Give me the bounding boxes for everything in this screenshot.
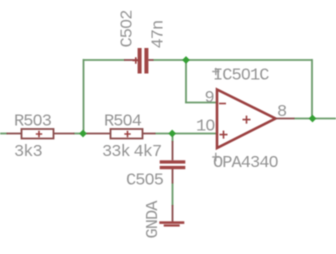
svg-text:C502: C502 (119, 10, 138, 47)
label IC501C (name) (213, 67, 269, 86)
wire: inverting input horizontal to pin 9 (185, 102, 216, 104)
wire: bottom input net horizontal (0, 133, 217, 135)
node: junction feedback top (182, 56, 190, 64)
wire: C505 net vertical to ground (172, 134, 174, 206)
node: junction R503/R504/C502 (79, 130, 87, 138)
svg-text:IC501C: IC501C (213, 67, 269, 86)
label C505 (name) (126, 172, 164, 191)
pin number 8 (277, 103, 287, 122)
svg-text:R503: R503 (14, 113, 52, 132)
origin cross of OPA4340 value (212, 153, 219, 161)
node: junction R504/C505/pin10 (168, 130, 176, 138)
svg-text:8: 8 (277, 103, 287, 122)
wire: right vertical feedback down to output (311, 59, 313, 119)
svg-text:GNDA: GNDA (144, 200, 163, 239)
svg-text:OPA4340: OPA4340 (213, 154, 279, 173)
svg-text:10: 10 (196, 118, 215, 137)
wire: left vertical from top net down to R503/R504 node (83, 59, 85, 134)
pin number 10 (196, 118, 215, 137)
capacitor C502 (124, 48, 154, 74)
label 3k3 (value of R503) (14, 143, 43, 162)
wire: top feedback net horizontal (84, 59, 313, 61)
svg-text:R504: R504 (104, 113, 142, 132)
wire: inverting input drop from feedback node (185, 60, 187, 103)
origin cross of IC501C name (212, 68, 219, 75)
svg-text:9: 9 (205, 89, 215, 108)
label GNDA (vertical) (144, 200, 163, 239)
resistor R504 (87, 129, 156, 139)
label R503 (name) (14, 113, 52, 132)
ground GNDA symbol (159, 205, 184, 227)
capacitor C505 (160, 141, 186, 184)
label 47n (value, vertical) (150, 21, 169, 49)
svg-text:4k7: 4k7 (134, 143, 162, 162)
pin number 9 (205, 89, 215, 108)
svg-text:C505: C505 (126, 172, 164, 191)
label 33k 4k7 (value) (102, 143, 161, 162)
label R504 (name) (104, 113, 142, 132)
label OPA4340 (value) (213, 154, 279, 173)
op-amp IC501C (217, 90, 295, 149)
svg-text:47n: 47n (150, 21, 169, 49)
label C502 (name, vertical) (119, 10, 138, 47)
resistor R503 (7, 129, 75, 139)
node: junction output (309, 115, 317, 123)
svg-text:33k: 33k (102, 143, 131, 162)
svg-text:3k3: 3k3 (14, 143, 43, 162)
zero glyph fix dots (36, 22, 275, 180)
wire: output net horizontal (294, 118, 336, 120)
